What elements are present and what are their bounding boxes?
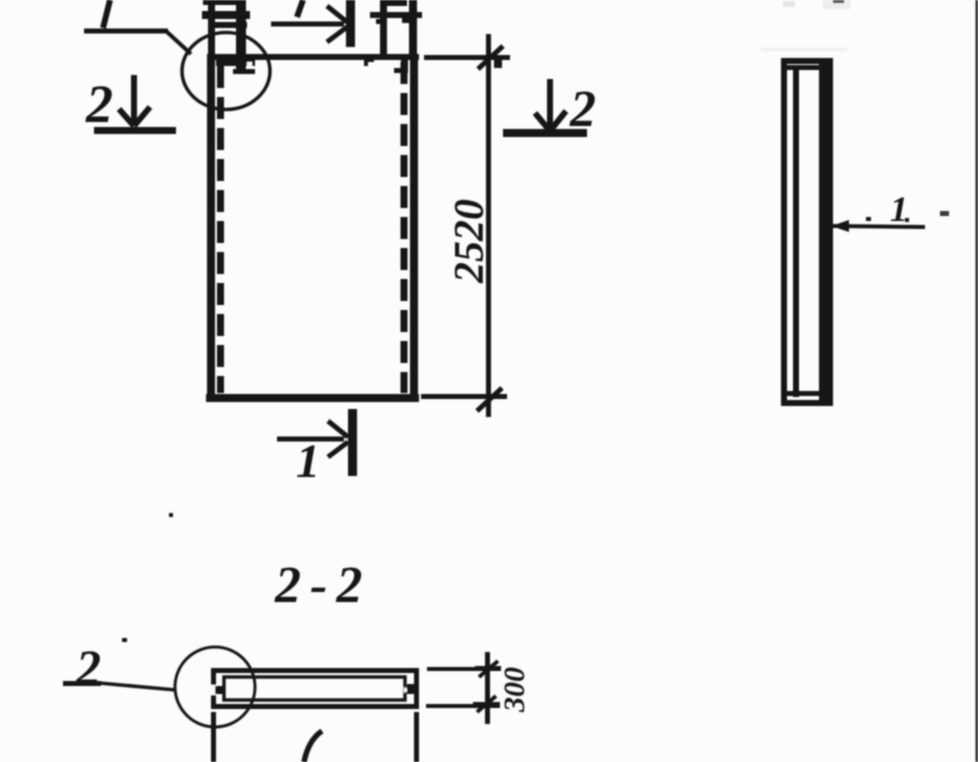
side view: inner vertical line	[793, 65, 799, 397]
svg-text:1: 1	[296, 435, 320, 488]
section marker 1 bottom: cut bar	[348, 409, 357, 476]
lifting loop left: post 2	[236, 0, 246, 56]
lifting loop right: post 2	[409, 0, 417, 56]
dimension 2520: dimension line	[486, 34, 491, 417]
dimension 2520: bottom extension line	[421, 394, 507, 399]
leader 2 bottom-left: underline	[63, 681, 101, 686]
lifting loop left: embedded hook J vertical	[236, 60, 246, 74]
svg-text:2: 2	[85, 74, 113, 134]
section marker 1 top: arrowhead	[327, 6, 347, 42]
label 1 top-left digit	[103, 0, 110, 28]
lifting loop right: crossbar 2b	[402, 18, 411, 23]
dimension 300: top extension line	[427, 667, 500, 671]
detail circle bottom	[175, 647, 255, 727]
section marker 1 top: arrow line	[271, 22, 344, 27]
lifting loop left: hook white gap	[247, 62, 252, 67]
svg-text:2: 2	[75, 639, 101, 695]
scan border right edge	[976, 0, 978, 762]
label 1 leader to circle	[166, 31, 191, 54]
lifting loop right: embedded hook J vertical	[401, 58, 408, 73]
side view: inner top line	[787, 65, 819, 70]
section marker 1 bottom: arrow line	[277, 437, 344, 442]
section 2-2: inner rect	[224, 677, 405, 700]
section marker 2 left: base line	[94, 127, 176, 134]
dashed line right	[401, 62, 408, 393]
bottom dimension: right extension line	[414, 712, 419, 762]
svg-text:2: 2	[569, 81, 596, 138]
lifting loop right: crossbar 1	[370, 12, 422, 18]
detail circle top-left	[182, 33, 270, 110]
panel front view: bottom edge	[206, 394, 419, 402]
dimension 300: bottom end tick	[473, 702, 500, 707]
dimension 2520: top tick	[478, 46, 503, 69]
lifting loop right: embedded hook stub	[364, 58, 374, 62]
side view: left edge	[781, 58, 787, 406]
lifting loop left: top cap	[203, 0, 243, 5]
dimension 2520: top extension line	[424, 55, 510, 60]
lifting loop right: crossbar 2a	[376, 19, 387, 24]
leader 2 bottom-left: leader line	[99, 683, 176, 690]
section marker 1 top: digit	[297, 0, 303, 17]
svg-text:2520: 2520	[447, 199, 493, 284]
lifting loop left: crossbar 2	[215, 22, 247, 28]
section marker 1 bottom: arrowhead	[328, 421, 348, 457]
svg-text:300: 300	[498, 667, 531, 713]
label 1 top-left underline	[84, 29, 168, 34]
speck dots near leader	[866, 217, 871, 221]
lifting loop left: crossbar 1	[202, 11, 250, 19]
section 2-2: left notch	[208, 685, 216, 695]
dimension 300: dimension line	[485, 652, 490, 724]
leader 1 right: arrow line	[833, 226, 925, 227]
panel front view: top edge	[207, 54, 419, 60]
svg-text:1: 1	[890, 189, 908, 229]
section 2-2: outer rect	[214, 671, 417, 707]
lifting loop left: embedded hook J foot	[233, 69, 255, 74]
side view: bottom edge	[781, 400, 833, 406]
side view: heavy right bar	[819, 58, 833, 406]
side view: top edge	[781, 58, 833, 64]
lifting loop left: embedded hook top band	[216, 60, 255, 66]
section marker 2 right: down arrow	[535, 79, 566, 131]
bottom dimension: left extension line	[211, 712, 216, 762]
section 2-2: right notch	[404, 687, 409, 693]
bottom dimension: length glyph (cut off)	[304, 731, 322, 762]
panel front view: left edge	[207, 54, 215, 402]
lifting loop left: post 1	[208, 0, 215, 56]
speck dot near circle	[122, 638, 127, 642]
svg-text:2-2: 2-2	[274, 557, 371, 614]
section marker 1 top: cut bar	[346, 0, 355, 47]
section marker 2 right: base line	[503, 129, 587, 137]
leader 1 right: arrowhead	[831, 220, 849, 232]
section marker 2 left: down arrow	[119, 75, 150, 126]
faint smudges top right	[783, 1, 795, 7]
dimension 300: bottom extension line	[426, 704, 500, 708]
lifting loop right: embedded hook J foot	[394, 68, 408, 73]
lifting loop right: post 1	[380, 0, 387, 56]
dimension 300: top end tick	[475, 666, 501, 671]
speck dot mid page	[169, 513, 173, 517]
panel front view: right edge	[410, 54, 418, 402]
lifting loop right: top cap	[381, 0, 407, 6]
side view: inner bottom line	[787, 391, 819, 396]
dashed line left	[217, 66, 224, 393]
dimension 2520: bottom tick	[477, 388, 502, 411]
